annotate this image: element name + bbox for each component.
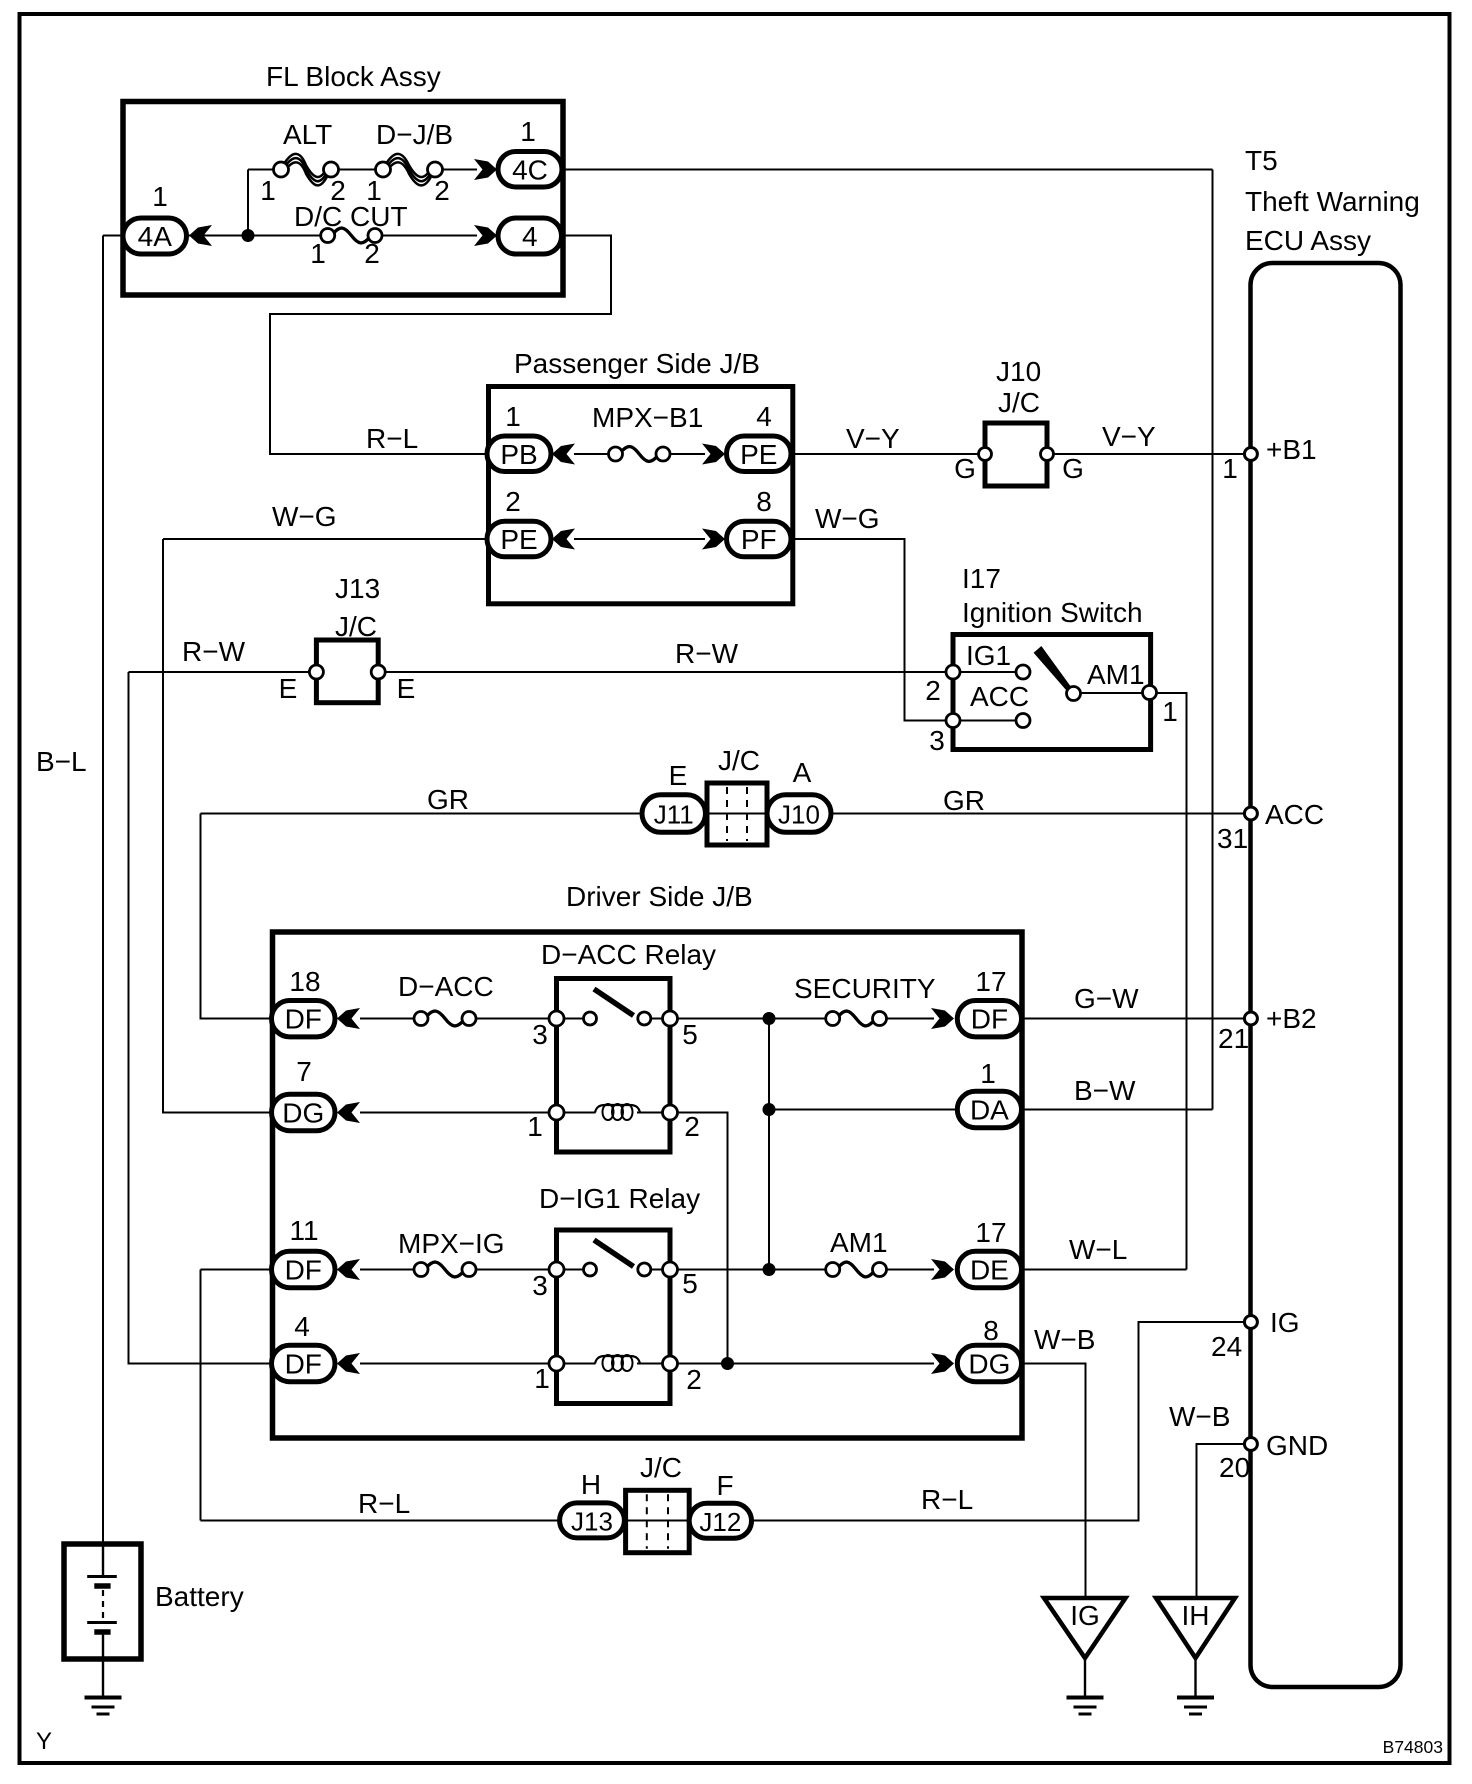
wire: W-B from ECU GND pin 20 down to IH ground triangle (1197, 1444, 1251, 1598)
svg-text:I17: I17 (962, 563, 1001, 594)
wire: ALT/D-J/B fuse row to 4C (248, 169, 288, 171)
ignition switch pin 3 terminal (946, 714, 960, 728)
wire: AM1 switch output down to D-IG1 AM1 fuse row (W-L) (1157, 693, 1187, 1270)
ECU pin 1 +B1 (1244, 448, 1257, 461)
arrow into connector 4C (474, 159, 497, 180)
svg-text:A: A (793, 757, 812, 788)
svg-text:2: 2 (434, 175, 450, 206)
svg-text:PE: PE (740, 439, 777, 470)
svg-text:G: G (954, 453, 976, 484)
svg-text:GR: GR (427, 784, 469, 815)
svg-text:4: 4 (294, 1311, 310, 1342)
svg-text:AM1: AM1 (830, 1227, 888, 1258)
svg-text:R−W: R−W (675, 638, 739, 669)
svg-text:J10: J10 (996, 356, 1041, 387)
fuse AM1 (838, 1262, 874, 1277)
fuse D/C CUT (333, 228, 369, 243)
ignition switch lever blade (1035, 648, 1072, 692)
connector DF pin 11 (272, 1251, 336, 1287)
junction: SECURITY row / battery bus (763, 1012, 776, 1025)
svg-text:DG: DG (282, 1098, 324, 1129)
arrow into connector PE pin 4 (702, 444, 725, 465)
svg-text:FL Block Assy: FL Block Assy (266, 61, 441, 92)
svg-text:DF: DF (285, 1349, 322, 1380)
svg-text:E: E (279, 673, 298, 704)
connector DF pin 4 (272, 1345, 336, 1381)
svg-text:5: 5 (682, 1019, 698, 1050)
svg-text:W−L: W−L (1069, 1234, 1127, 1265)
ignition switch internal wires and contacts (960, 671, 1016, 673)
svg-text:J12: J12 (699, 1507, 741, 1537)
svg-text:W−B: W−B (1169, 1401, 1230, 1432)
svg-text:11: 11 (289, 1215, 318, 1246)
svg-text:ACC: ACC (1265, 799, 1324, 830)
H/F J/C box with J13 and J12 connectors (626, 1490, 690, 1552)
wire: battery-bus vertical x=769 linking SECURITY / B-W / AM1 rows (768, 1019, 770, 1270)
battery ground symbol (85, 1696, 122, 1700)
svg-text:D−ACC: D−ACC (398, 971, 494, 1002)
svg-text:4: 4 (756, 401, 772, 432)
svg-text:1: 1 (505, 401, 521, 432)
svg-text:V−Y: V−Y (1102, 421, 1156, 452)
svg-text:2: 2 (505, 486, 521, 517)
Passenger Side J/B box (489, 387, 793, 604)
fuse D-ACC (427, 1011, 464, 1026)
svg-text:G: G (1062, 453, 1084, 484)
junction: D-IG1 coil row (721, 1357, 734, 1370)
arrow into connector DF 17 (931, 1008, 954, 1029)
svg-text:DG: DG (968, 1349, 1010, 1380)
svg-text:PF: PF (741, 524, 777, 555)
ignition switch contact ACC (1016, 714, 1030, 728)
svg-text:D−ACC Relay: D−ACC Relay (541, 939, 716, 970)
FL Block Assy box (123, 102, 563, 296)
svg-text:Y: Y (36, 1728, 52, 1755)
fuse MPX-IG (427, 1262, 464, 1277)
svg-text:IG: IG (1270, 1307, 1300, 1338)
connector DG pin 8 (957, 1345, 1021, 1381)
connector DA pin 1 (957, 1091, 1021, 1127)
svg-text:T5: T5 (1245, 145, 1278, 176)
svg-text:R−L: R−L (358, 1488, 410, 1519)
ignition switch pivot AM1 (1067, 687, 1081, 701)
connector PF pin 8 (727, 521, 792, 557)
svg-text:2: 2 (364, 238, 380, 269)
svg-text:PE: PE (500, 524, 537, 555)
connector DF pin 18 (272, 1001, 336, 1037)
arrow out of connector DF 11 (337, 1259, 360, 1280)
svg-text:ACC: ACC (970, 681, 1029, 712)
svg-text:7: 7 (296, 1056, 312, 1087)
connector DE pin 17 (957, 1251, 1021, 1287)
svg-text:1: 1 (534, 1363, 550, 1394)
svg-text:20: 20 (1219, 1452, 1250, 1483)
wire: G-W from DF17 to ECU +B2 pin 21 (1022, 1018, 1251, 1020)
arrow into connector PF pin 8 (702, 529, 725, 550)
wire: V-Y from PE4 through J10 J/C to ECU +B1 pin 1 (791, 453, 1250, 455)
svg-text:R−W: R−W (182, 636, 246, 667)
junction: AM1 fuse row / battery bus (763, 1263, 776, 1276)
wire: 4C output to vertical bus x=1212 (561, 169, 1213, 171)
svg-text:B74803: B74803 (1383, 1737, 1443, 1757)
svg-text:J10: J10 (778, 800, 820, 830)
arrow out of connector DF 4 (337, 1353, 360, 1374)
wire: D-IG1 coil row DF4 to relay coil to DG8 (360, 1363, 557, 1365)
svg-text:H: H (581, 1469, 601, 1500)
arrow out of connector PB (552, 444, 575, 465)
svg-text:Theft Warning: Theft Warning (1245, 186, 1420, 217)
fuse MPX-B1 (621, 447, 658, 462)
svg-text:J/C: J/C (640, 1452, 682, 1483)
svg-text:Battery: Battery (155, 1581, 244, 1612)
wire: B-L battery feed vertical x=103 (102, 236, 104, 1547)
junction connector J10 J/C box (985, 423, 1047, 486)
svg-text:17: 17 (975, 1217, 1006, 1248)
svg-text:PB: PB (500, 439, 537, 470)
svg-text:J11: J11 (654, 800, 694, 830)
connector 4C pin 1 (498, 152, 562, 188)
svg-text:3: 3 (929, 725, 945, 756)
svg-text:4C: 4C (512, 154, 548, 185)
svg-text:2: 2 (684, 1111, 700, 1142)
wire: R-W vertical x=128 down to DF4 row (129, 672, 274, 1364)
svg-text:Passenger Side J/B: Passenger Side J/B (514, 348, 760, 379)
svg-text:G−W: G−W (1074, 983, 1139, 1014)
fusible link ALT (285, 154, 327, 177)
svg-text:GR: GR (943, 785, 985, 816)
connector PE pin 2 (487, 521, 551, 557)
svg-text:R−L: R−L (921, 1484, 973, 1515)
connector 4A pin 1 (123, 218, 187, 254)
svg-text:IG: IG (1070, 1600, 1100, 1631)
ignition switch pin 2 terminal (946, 665, 960, 679)
svg-text:V−Y: V−Y (846, 423, 900, 454)
svg-text:F: F (716, 1470, 733, 1501)
ignition switch I17 box (953, 635, 1151, 750)
svg-text:DF: DF (971, 1004, 1008, 1035)
svg-text:1: 1 (980, 1058, 996, 1089)
svg-text:R−L: R−L (366, 423, 418, 454)
battery cell symbol (102, 1547, 104, 1577)
wire: D-ACC coil terminal 2 down to D-IG1 coil row (670, 1113, 728, 1364)
svg-text:B−L: B−L (36, 746, 87, 777)
svg-text:+B2: +B2 (1266, 1003, 1317, 1034)
wire: W-L from DE up to ignition switch AM1 (1022, 1269, 1187, 1271)
wire: W-G row PE2 to PF (163, 538, 490, 540)
wire: B-W from DA to battery bus x=1212 (769, 1109, 958, 1111)
svg-text:2: 2 (925, 675, 941, 706)
svg-text:3: 3 (532, 1270, 548, 1301)
svg-text:18: 18 (289, 966, 320, 997)
svg-text:D−J/B: D−J/B (376, 119, 453, 150)
svg-text:DE: DE (970, 1255, 1009, 1286)
svg-text:3: 3 (532, 1019, 548, 1050)
arrow out of connector 4A (189, 225, 212, 246)
connector DF pin 17 (957, 1001, 1021, 1037)
wire: MPX-B1 row PB to PE (574, 453, 612, 455)
wire: W-B from DG8 down to IG ground triangle (1022, 1364, 1086, 1599)
junction: B-W row / battery bus (763, 1103, 776, 1116)
svg-text:D/C CUT: D/C CUT (294, 201, 408, 232)
svg-text:1: 1 (520, 116, 536, 147)
svg-text:1: 1 (152, 181, 168, 212)
wire: R-L vertical from DF11 down to J13 row (200, 1270, 202, 1521)
svg-text:W−G: W−G (272, 501, 337, 532)
svg-text:J13: J13 (571, 1506, 613, 1536)
ignition switch contact IG1 (1016, 665, 1030, 679)
svg-text:1: 1 (260, 175, 276, 206)
svg-text:8: 8 (756, 486, 772, 517)
wire: D-ACC fuse row DF18 to relay and SECURITY to DF17 (360, 1018, 416, 1020)
ignition switch pin 1 terminal AM1 (1143, 686, 1157, 700)
svg-text:4: 4 (522, 221, 538, 252)
svg-text:W−B: W−B (1034, 1324, 1095, 1355)
wire: W-G vertical x=163 down to DG7 coil row (163, 539, 273, 1113)
svg-text:+B1: +B1 (1266, 434, 1317, 465)
svg-text:5: 5 (682, 1268, 698, 1299)
wire: W-G from PF to ignition switch ACC pin 3 (791, 539, 951, 721)
ground triangle IH (1156, 1598, 1235, 1658)
svg-text:17: 17 (975, 966, 1006, 997)
svg-text:ALT: ALT (283, 119, 332, 150)
svg-text:GND: GND (1266, 1430, 1328, 1461)
svg-text:DA: DA (970, 1095, 1009, 1126)
wire: GR vertical x=200 down to DF18 row (201, 814, 274, 1019)
svg-text:SECURITY: SECURITY (794, 973, 936, 1004)
connector 4 (498, 218, 562, 254)
arrow out of connector DF 18 (337, 1008, 360, 1029)
fuse SECURITY (838, 1011, 874, 1026)
wire: FL block internal vertical junction to ALT input (247, 170, 249, 237)
svg-text:DF: DF (285, 1255, 322, 1286)
E/A J/C box with J11 and J10 connectors (707, 783, 767, 845)
D-ACC relay (557, 979, 671, 1153)
svg-text:1: 1 (310, 238, 326, 269)
wire: GR row through E/A J/C to ECU ACC pin 31 (201, 813, 646, 815)
svg-text:E: E (669, 760, 688, 791)
connector J10 (A) (767, 795, 831, 833)
arrow out of connector DG 7 (337, 1102, 360, 1123)
svg-text:AM1: AM1 (1087, 659, 1145, 690)
svg-text:J/C: J/C (998, 387, 1040, 418)
svg-text:J/C: J/C (718, 745, 760, 776)
svg-text:4A: 4A (138, 221, 173, 252)
svg-text:J13: J13 (335, 573, 380, 604)
battery box (64, 1544, 141, 1659)
wire: 4A row through D/C CUT fuse to connector 4 (103, 235, 212, 237)
ECU pin 21 +B2 (1244, 1012, 1257, 1025)
wire: vertical from 4C wire down to B-W row (battery bus) (1212, 170, 1214, 1110)
svg-text:24: 24 (1211, 1331, 1242, 1362)
svg-text:E: E (397, 673, 416, 704)
connector PB pin 1 (487, 436, 551, 472)
svg-text:ECU Assy: ECU Assy (1245, 225, 1371, 256)
ECU pin 20 GND (1244, 1438, 1257, 1451)
ECU pin 24 IG (1244, 1316, 1257, 1329)
svg-text:J/C: J/C (335, 611, 377, 642)
svg-text:D−IG1 Relay: D−IG1 Relay (539, 1183, 700, 1214)
ECU pin 31 ACC (1244, 807, 1257, 820)
arrow into connector DE 17 (931, 1259, 954, 1280)
connector PE pin 4 (727, 436, 792, 472)
arrow out of connector PE pin 2 (552, 529, 575, 550)
D-IG1 relay (557, 1230, 671, 1404)
fusible link D-J/B (387, 154, 431, 177)
ground triangle IG (1044, 1598, 1126, 1658)
connector J12 (F) (689, 1503, 751, 1538)
svg-text:8: 8 (983, 1315, 999, 1346)
wire: connector 4 output jog to R-L feed (270, 236, 611, 455)
svg-text:MPX−B1: MPX−B1 (592, 402, 703, 433)
svg-text:1: 1 (1162, 696, 1178, 727)
Theft Warning ECU T5 box (1251, 263, 1401, 1687)
junction connector J13 J/C box (R-W) (316, 640, 378, 703)
svg-text:2: 2 (686, 1364, 702, 1395)
wire: D-IG1 fuse row DF11 to relay and AM1 fuse to DE (201, 1269, 274, 1271)
Driver Side J/B box (273, 932, 1023, 1438)
svg-text:DF: DF (285, 1004, 322, 1035)
svg-text:Ignition Switch: Ignition Switch (962, 597, 1143, 628)
connector J13 (H) (560, 1503, 625, 1538)
svg-text:IH: IH (1182, 1600, 1210, 1631)
svg-text:1: 1 (1222, 453, 1238, 484)
junction: FL block D/C CUT tap (242, 229, 255, 242)
svg-text:B−W: B−W (1074, 1075, 1136, 1106)
svg-text:Driver Side J/B: Driver Side J/B (566, 881, 753, 912)
svg-text:MPX−IG: MPX−IG (398, 1228, 505, 1259)
arrow into connector DG 8 (931, 1353, 954, 1374)
svg-text:W−G: W−G (815, 503, 880, 534)
wire: D-ACC coil row DG7 to relay coil (360, 1112, 557, 1114)
svg-text:1: 1 (527, 1111, 543, 1142)
wire: R-L row through H/F J/C then up to ECU IG pin 24 (201, 1520, 563, 1522)
connector J11 (E) (642, 795, 706, 833)
svg-text:31: 31 (1217, 823, 1248, 854)
svg-text:21: 21 (1218, 1023, 1249, 1054)
connector DG pin 7 (272, 1094, 336, 1130)
wire: R-W row through J13 J/C to ignition switch IG1 pin 2 (129, 671, 952, 673)
svg-text:IG1: IG1 (966, 640, 1011, 671)
arrow into connector 4 (474, 225, 497, 246)
